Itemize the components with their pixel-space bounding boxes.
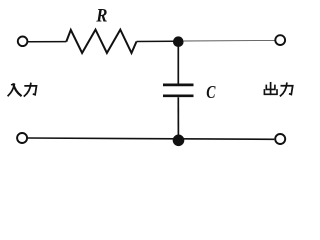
wire <box>183 39 275 42</box>
wire bottom rail <box>28 138 274 139</box>
wire <box>137 40 175 42</box>
terminal output top <box>275 35 285 45</box>
label shutsuryoku (output) kanji SHUTSU <box>264 83 277 95</box>
terminal input bottom <box>17 133 27 143</box>
resistor R <box>66 30 136 53</box>
label nyuryoku (input) kanji RYOKU <box>24 84 36 97</box>
svg-text:R: R <box>95 5 107 26</box>
wire <box>177 97 179 139</box>
wire <box>28 41 66 43</box>
node junction bottom <box>173 135 185 147</box>
terminal input top <box>18 37 28 47</box>
wire <box>177 46 179 84</box>
label nyuryoku (input) kanji NYU <box>8 84 21 95</box>
terminal output bottom <box>275 134 285 144</box>
label shutsuryoku (output) kanji RYOKU <box>281 83 293 96</box>
capacitor C top plate <box>163 84 194 87</box>
capacitor C bottom plate <box>163 94 194 97</box>
node junction top <box>173 36 184 47</box>
svg-text:C: C <box>206 82 216 102</box>
